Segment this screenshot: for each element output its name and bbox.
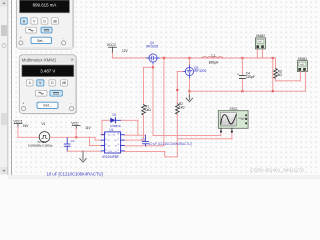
wire: top rail from Q1 to right corner [161,57,276,59]
svg-text:XSC1: XSC1 [230,107,239,111]
wire: Q1 gate jog to R1 and scope channel A [144,65,221,136]
canvas background with grid dots [0,0,320,179]
svg-text:C1: C1 [141,138,145,142]
AC / DC buttons [35,90,47,96]
svg-text:mA: mA [300,63,304,66]
svg-text:dB: dB [53,19,58,23]
capacitor C2 [64,138,70,151]
svg-text:U1: U1 [109,128,113,132]
svg-text:Set...: Set... [37,39,45,43]
oscilloscope icon XSC1 [218,111,248,134]
ground symbol (arrow) at chip COM rail [80,151,86,162]
display [20,0,70,13]
power symbol VCC1 [14,124,22,127]
bottom horizontal scrollbar [8,175,320,179]
svg-text:L1: L1 [212,54,216,58]
diode D1 [102,118,138,123]
node junction Q1 gate T [152,66,154,68]
node junction VCC stem on V1 wire [75,136,77,138]
multimeter icon XMM1 [297,61,307,76]
svg-text:Multimeter-XMM1: Multimeter-XMM1 [22,57,57,62]
wire: XMM1 right leg down to return rail [304,76,306,91]
wire: Q2 source down to ground [188,79,190,97]
AC / DC buttons [26,27,37,33]
pin name labels inside U1 [108,135,118,153]
svg-text:220µF: 220µF [246,75,255,79]
sheet border line [11,0,13,175]
power symbol VCC [72,126,80,129]
svg-text:D1: D1 [113,113,117,117]
wire: R3 bottom to XMM1 left leg [276,76,301,81]
node junction Q2 gate / R2 [176,89,178,91]
wire: output return rail (bottom right) [189,90,305,92]
svg-text:1kΩ: 1kΩ [179,106,185,110]
inductor L1 coil [202,57,223,59]
resistor R3 [274,69,278,79]
wire: R1 bottom to pin7 (HO) [124,115,143,140]
node junction Q2 drain on rail [188,57,190,59]
node junction R3 column top on rail [272,57,274,59]
transistor Q2 IRF3205 [183,64,194,79]
wire: scope channel B tap from R2 column [177,132,232,138]
svg-text:dB: dB [62,81,67,85]
svg-text:mA: mA [258,41,262,44]
svg-text:12V: 12V [122,49,129,53]
wire D1 anode branch down to pin1 [101,120,104,134]
svg-text:820µH: 820µH [209,60,219,64]
svg-text:V1: V1 [42,122,46,126]
capacitor C1 (bootstrap) [142,135,148,146]
svg-text:IRF3205: IRF3205 [194,69,206,73]
svg-text:899.615 mA: 899.615 mA [33,2,57,7]
svg-text:VCC1: VCC1 [14,120,23,124]
wire: Q2 gate to R2 top [177,72,182,104]
svg-text:Ω: Ω [51,81,54,85]
svg-text:15V: 15V [23,124,30,128]
svg-text:CSDN @2401_84911178: CSDN @2401_84911178 [250,168,304,174]
node junction right of Q1 (switching node drop) [163,57,165,59]
svg-text:+: + [22,102,24,106]
node junction Q2 source / output return rail [188,90,190,92]
svg-text:Set...: Set... [43,104,51,108]
wire VCC1 to V1 [18,127,39,137]
svg-text:10 uF [C1210C106K4RACTU]: 10 uF [C1210C106K4RACTU] [149,142,192,146]
svg-text:10 uF [C1210C106K4RACTU]: 10 uF [C1210C106K4RACTU] [47,171,103,176]
node junction C4 top on rail [241,57,243,59]
wire: R2 bottom down, jog to LO pin5 [124,114,177,157]
buttons A V Ω dB [21,18,59,24]
svg-text:1kΩ: 1kΩ [145,108,151,112]
wire VCC2 to Q1 [113,53,147,58]
svg-text:COM: COM [108,151,113,153]
resistor R1 [142,105,146,115]
wire: left output column (to return rail) [272,58,274,91]
svg-text:11V: 11V [85,126,91,130]
transistor Q1 IRF3205 [147,54,161,65]
display [22,65,74,77]
svg-text:3.487 V: 3.487 V [40,69,55,74]
Set button [37,102,58,108]
node junction at return rail x=272.8 [272,90,274,92]
svg-text:IRF3205: IRF3205 [146,45,158,49]
buttons A V Ω dB [26,80,67,86]
resistor R2 [176,104,180,114]
node junction C4 bottom [241,90,243,92]
svg-text:XMM2: XMM2 [256,34,265,38]
svg-text:IR2104PBF: IR2104PBF [103,155,120,159]
wire: rail corner into R3 [275,58,277,69]
wire ground rail (chip COM) [67,150,101,152]
ground symbol (arrow) at Q2 source [186,95,192,102]
wire branch to pin3 [90,137,102,145]
Set button [31,37,52,43]
svg-text:Ω: Ω [43,19,46,23]
svg-text:C2: C2 [71,139,75,143]
wire: VS drop from rail junction down to pin6 [124,58,164,146]
svg-text:1N5819: 1N5819 [110,124,121,128]
wire: Q2 drain up to rail [188,58,190,64]
wire VCC stem down to V1 wire [75,129,77,138]
svg-text:VCC: VCC [71,122,79,126]
svg-text:+: + [20,36,22,40]
svg-text:×: × [71,58,74,64]
svg-text:VCC2: VCC2 [107,43,116,47]
op-amp driver IC U1 IR2104 [101,132,124,153]
svg-text:8Ω: 8Ω [278,73,283,77]
capacitor C4 [241,58,243,91]
power symbol VCC2 [109,47,117,53]
source V1 (pulse source) [39,132,50,143]
svg-text:0.000066s 0.0001s: 0.000066s 0.0001s [28,144,53,148]
svg-text:XMM1: XMM1 [298,57,307,61]
left vertical scrollbar [0,0,8,175]
wire V1 to chip input pin2 [50,137,101,140]
multimeter icon XMM2 [255,38,265,58]
svg-text:+: + [237,72,239,76]
wire D1 cathode down to VB node [124,120,145,135]
